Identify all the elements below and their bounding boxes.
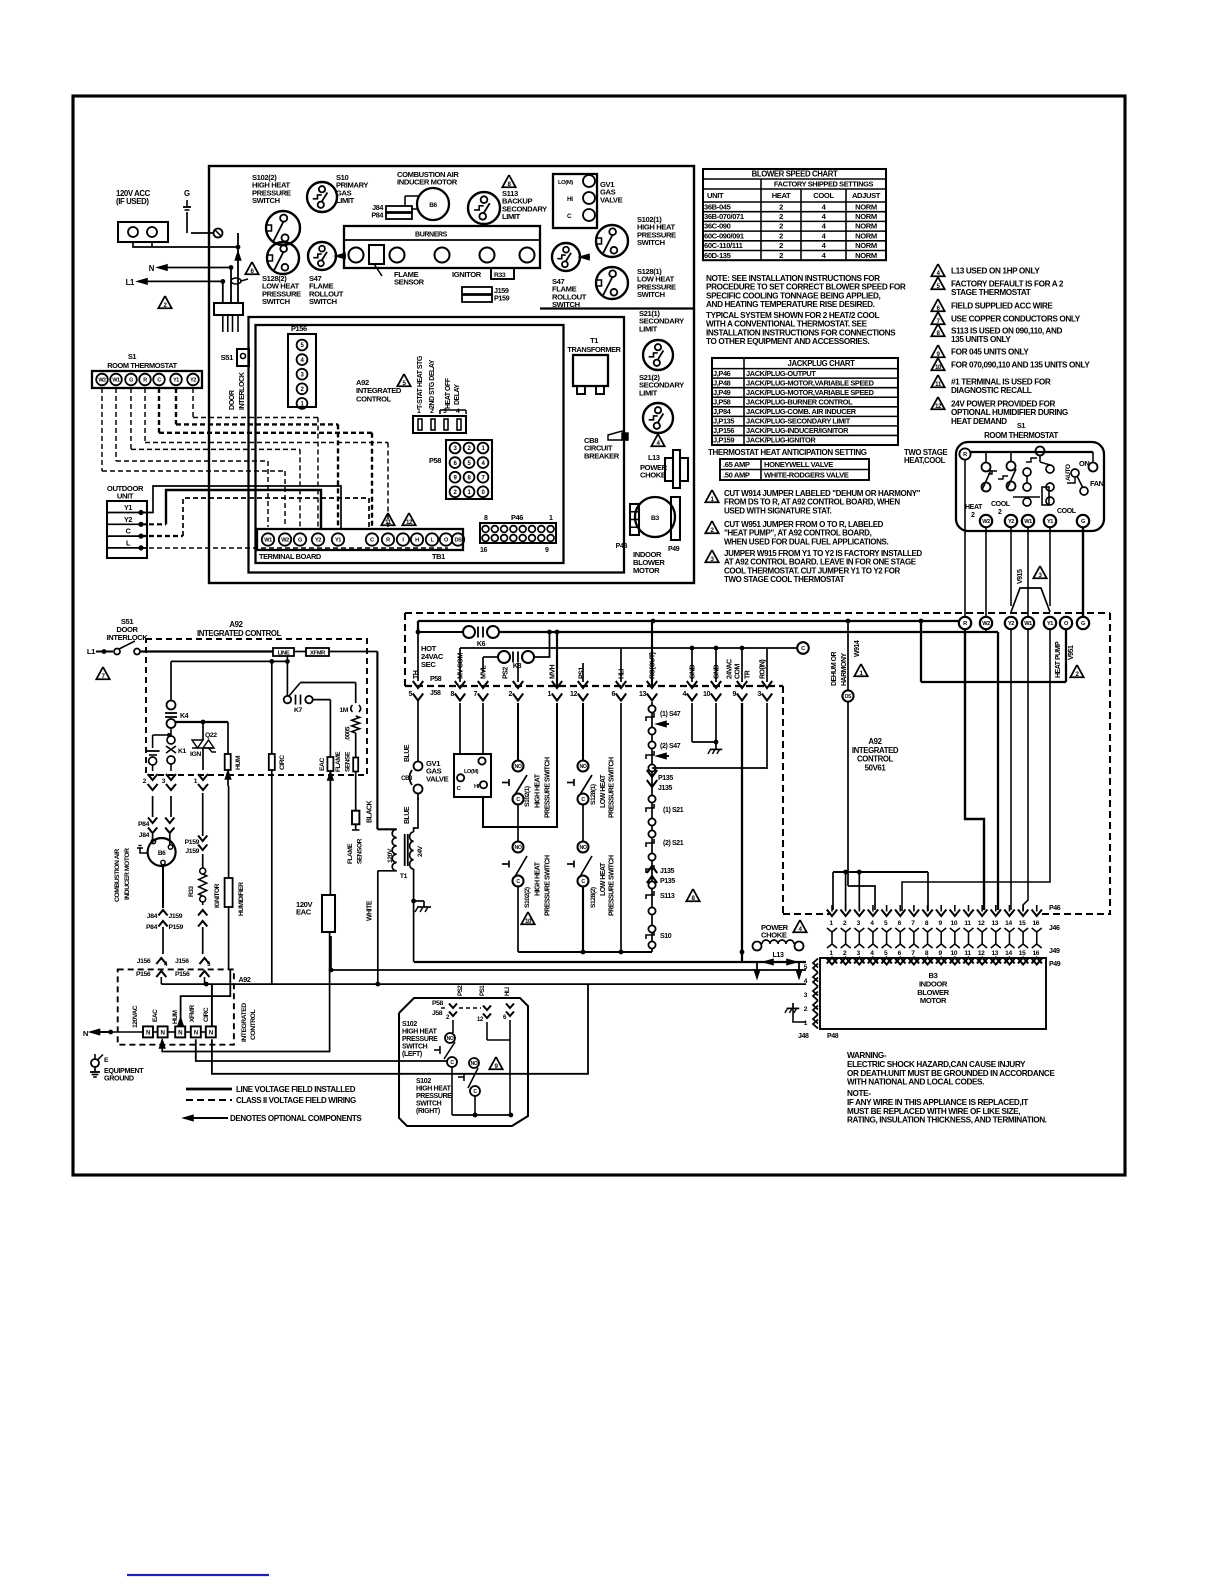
S102(1) switch stack <box>513 761 524 772</box>
svg-text:1: 1 <box>417 408 421 415</box>
svg-text:TH: TH <box>413 670 420 679</box>
svg-text:J159: J159 <box>185 848 199 855</box>
svg-text:NORM: NORM <box>855 241 877 250</box>
svg-text:P48: P48 <box>616 543 628 550</box>
svg-text:LOW HEAT: LOW HEAT <box>600 774 607 808</box>
svg-text:1M: 1M <box>339 707 348 714</box>
svg-text:DS: DS <box>845 694 852 700</box>
svg-text:60C-090/091: 60C-090/091 <box>704 231 745 240</box>
note triangle 2 W951 <box>705 521 718 533</box>
svg-text:P46: P46 <box>1049 905 1061 912</box>
triangle 7 lower <box>96 667 109 679</box>
B6 inducer motor <box>417 188 449 220</box>
svg-text:6: 6 <box>611 691 615 698</box>
svg-text:DIAGNOSTIC RECALL: DIAGNOSTIC RECALL <box>951 386 1032 395</box>
svg-text:Y1: Y1 <box>1047 519 1053 525</box>
svg-text:.50 AMP: .50 AMP <box>723 471 750 480</box>
svg-text:J156: J156 <box>175 958 189 965</box>
svg-text:COOL THERMOSTAT. CUT JUMPER Y1: COOL THERMOSTAT. CUT JUMPER Y1 TO Y2 FOR <box>724 566 901 575</box>
EAC wire to N box <box>160 1040 165 1048</box>
svg-text:COOL: COOL <box>991 501 1011 508</box>
svg-text:J46: J46 <box>1049 925 1060 932</box>
svg-text:FACTORY SHIPPED SETTINGS: FACTORY SHIPPED SETTINGS <box>774 180 874 189</box>
svg-text:NO: NO <box>471 1061 478 1067</box>
svg-text:A92: A92 <box>239 975 251 984</box>
control compartment box B <box>249 317 625 573</box>
svg-text:SWITCH: SWITCH <box>402 1044 428 1051</box>
svg-text:Y2: Y2 <box>124 515 132 524</box>
svg-text:TERMINAL BOARD: TERMINAL BOARD <box>259 552 322 561</box>
triangle 12 note <box>402 513 415 525</box>
svg-text:L13 USED ON 1HP ONLY: L13 USED ON 1HP ONLY <box>951 267 1040 276</box>
svg-text:CB8: CB8 <box>401 776 413 782</box>
svg-text:Q22: Q22 <box>205 732 217 739</box>
svg-text:J159: J159 <box>169 913 183 920</box>
svg-text:BREAKER: BREAKER <box>584 451 620 460</box>
svg-text:PRESSURE SWITCH: PRESSURE SWITCH <box>545 855 552 916</box>
S10 limit switch <box>307 182 337 212</box>
svg-text:PRESSURE SWITCH: PRESSURE SWITCH <box>609 757 616 818</box>
svg-text:60D-135: 60D-135 <box>704 251 732 260</box>
wire nut splice <box>214 229 223 238</box>
G wire stub <box>1082 527 1084 616</box>
S128(2) low heat pressure switch <box>267 242 299 274</box>
svg-text:Y2: Y2 <box>315 538 321 544</box>
svg-text:MVH: MVH <box>550 665 557 680</box>
svg-text:L13: L13 <box>773 952 784 959</box>
svg-text:CUT W951 JUMPER FROM O TO R, L: CUT W951 JUMPER FROM O TO R, LABELED <box>724 520 884 529</box>
svg-text:P156: P156 <box>291 324 307 333</box>
svg-text:9: 9 <box>545 547 549 554</box>
humidifier lower <box>225 878 233 907</box>
svg-text:HI: HI <box>474 784 480 790</box>
svg-text:2: 2 <box>430 408 434 415</box>
svg-text:36B-070/071: 36B-070/071 <box>704 212 745 221</box>
svg-text:BLUE: BLUE <box>404 744 411 762</box>
svg-text:L1: L1 <box>126 278 135 287</box>
svg-text:HONEYWELL VALVE: HONEYWELL VALVE <box>764 460 833 469</box>
svg-text:INSTALLATION INSTRUCTIONS FOR: INSTALLATION INSTRUCTIONS FOR CONNECTION… <box>706 328 896 337</box>
S47 flame rollout switch left <box>308 242 336 270</box>
black wire drop to T1 primary <box>376 652 378 830</box>
svg-text:R: R <box>963 621 967 627</box>
svg-text:P84: P84 <box>146 924 158 931</box>
O to R jumper wiring <box>920 621 922 682</box>
svg-text:J84: J84 <box>139 832 150 839</box>
svg-text:P58: P58 <box>432 1000 444 1007</box>
svg-text:JACK/PLUG-IGNITOR: JACK/PLUG-IGNITOR <box>746 436 816 445</box>
svg-text:3: 3 <box>757 691 761 698</box>
C terminal <box>797 642 809 654</box>
svg-text:P84: P84 <box>371 211 383 220</box>
svg-text:USE COPPER CONDUCTORS ONLY: USE COPPER CONDUCTORS ONLY <box>951 315 1081 324</box>
B3 ground <box>793 1012 806 1022</box>
svg-text:V951: V951 <box>1068 645 1075 660</box>
svg-text:12: 12 <box>935 403 942 410</box>
svg-text:EAC: EAC <box>319 758 326 771</box>
svg-text:14: 14 <box>1005 950 1012 957</box>
svg-text:WHITE-RODGERS VALVE: WHITE-RODGERS VALVE <box>764 471 849 480</box>
svg-text:NORM: NORM <box>855 231 877 240</box>
svg-text:T1: T1 <box>590 336 598 345</box>
A92 board terminal row <box>959 617 971 629</box>
svg-text:B6: B6 <box>158 850 166 857</box>
svg-text:TYPICAL SYSTEM SHOWN FOR 2 HEA: TYPICAL SYSTEM SHOWN FOR 2 HEAT/2 COOL <box>706 311 880 320</box>
svg-text:J,P46: J,P46 <box>713 369 731 378</box>
connector oval on feed <box>231 278 241 284</box>
svg-text:#1 TERMINAL IS USED FOR: #1 TERMINAL IS USED FOR <box>951 378 1051 387</box>
svg-text:HUM: HUM <box>172 1009 179 1024</box>
svg-text:(RIGHT): (RIGHT) <box>416 1108 440 1115</box>
svg-text:J49: J49 <box>1049 948 1060 955</box>
K4 relay <box>170 661 172 700</box>
outdoor unit box <box>107 501 147 558</box>
svg-text:16: 16 <box>1032 920 1039 927</box>
svg-text:14: 14 <box>1005 920 1012 927</box>
svg-text:10: 10 <box>951 950 958 957</box>
Y2 wire to pin14 <box>1010 629 1012 910</box>
svg-text:HEAT OFF: HEAT OFF <box>445 377 452 409</box>
legend <box>186 1088 232 1091</box>
svg-text:S102: S102 <box>402 1021 417 1028</box>
svg-text:TWO STAGE COOL THERMOSTAT: TWO STAGE COOL THERMOSTAT <box>724 575 845 584</box>
svg-text:12: 12 <box>978 920 985 927</box>
GV1 gas valve box <box>553 174 597 228</box>
svg-text:DEHUM OR: DEHUM OR <box>831 651 838 686</box>
svg-text:P135: P135 <box>658 775 673 782</box>
svg-text:HEAT,COOL: HEAT,COOL <box>904 456 946 465</box>
transformer T1 lower <box>392 829 397 870</box>
svg-text:11: 11 <box>935 381 942 388</box>
svg-text:P58: P58 <box>429 456 441 465</box>
svg-text:JACKPLUG CHART: JACKPLUG CHART <box>787 359 855 368</box>
svg-text:S102(2): S102(2) <box>524 887 531 908</box>
Y1 wire to pin6 <box>902 629 1050 911</box>
svg-text:K7: K7 <box>294 707 303 714</box>
svg-text:NORM: NORM <box>855 212 877 221</box>
svg-text:IGNITOR: IGNITOR <box>452 270 482 279</box>
svg-text:J84: J84 <box>147 913 158 920</box>
svg-text:R33: R33 <box>494 272 506 279</box>
svg-text:LIMIT: LIMIT <box>336 196 355 205</box>
svg-text:WITH A CONVENTIONAL THERMOSTAT: WITH A CONVENTIONAL THERMOSTAT. SEE <box>706 320 868 329</box>
outdoor Y1 wire <box>141 486 341 529</box>
svg-text:CHOKE: CHOKE <box>761 931 787 940</box>
CIRC branch <box>271 661 273 754</box>
svg-text:J58: J58 <box>432 1010 443 1017</box>
svg-text:2: 2 <box>971 512 975 519</box>
svg-text:DOOR: DOOR <box>227 389 236 410</box>
svg-text:OPTIONAL HUMIDIFIER DURING: OPTIONAL HUMIDIFIER DURING <box>951 408 1068 417</box>
svg-text:K4: K4 <box>180 713 189 720</box>
stat drop wires <box>964 460 966 617</box>
svg-text:J,P49: J,P49 <box>713 388 731 397</box>
svg-text:FOR 045 UNITS ONLY: FOR 045 UNITS ONLY <box>951 348 1029 357</box>
svg-text:PRESSURE: PRESSURE <box>402 1036 438 1043</box>
svg-text:PS2: PS2 <box>457 985 464 996</box>
svg-text:4: 4 <box>456 408 460 415</box>
svg-text:N: N <box>149 264 155 273</box>
svg-text:(LEFT): (LEFT) <box>402 1051 422 1058</box>
svg-text:S1: S1 <box>128 352 137 361</box>
svg-text:SENSE: SENSE <box>345 751 352 772</box>
svg-text:XFMR: XFMR <box>310 651 326 657</box>
svg-text:GND: GND <box>714 665 721 680</box>
ground symbol at G <box>186 200 188 207</box>
svg-text:ELECTRIC SHOCK HAZARD,CAN CAUS: ELECTRIC SHOCK HAZARD,CAN CAUSE INJURY <box>847 1060 1026 1069</box>
svg-text:RATING, INSULATION THICKNESS,: RATING, INSULATION THICKNESS, AND TERMIN… <box>847 1116 1047 1125</box>
C terminal line <box>460 647 797 649</box>
fan-auto contacts middle <box>1036 447 1045 456</box>
svg-text:J48: J48 <box>798 1033 809 1040</box>
svg-text:N: N <box>83 1029 88 1038</box>
chain to pin3 line <box>652 767 767 769</box>
svg-text:11: 11 <box>964 920 971 927</box>
svg-text:JACK/PLUG-SECONDARY LIMIT: JACK/PLUG-SECONDARY LIMIT <box>746 417 851 426</box>
svg-text:16: 16 <box>1032 950 1039 957</box>
terminal board TB1 <box>257 529 463 550</box>
svg-text:FLAME: FLAME <box>347 843 354 864</box>
W2 bus wire to pin13 <box>985 629 987 633</box>
svg-text:JACK/PLUG-OUTPUT: JACK/PLUG-OUTPUT <box>746 369 816 378</box>
svg-text:1: 1 <box>549 515 553 522</box>
svg-text:HEAT DEMAND: HEAT DEMAND <box>951 417 1007 426</box>
svg-text:SWITCH: SWITCH <box>309 297 337 306</box>
wire from G to nut <box>186 213 188 233</box>
svg-text:INDUCER MOTOR: INDUCER MOTOR <box>397 178 458 187</box>
svg-text:BURNERS: BURNERS <box>415 232 448 239</box>
svg-text:HUMIDIFIER: HUMIDIFIER <box>238 882 245 916</box>
lower A92 dashed box <box>118 969 234 1044</box>
svg-text:IF ANY WIRE IN THIS APPLIANCE: IF ANY WIRE IN THIS APPLIANCE IS REPLACE… <box>847 1098 1028 1107</box>
svg-text:LINE: LINE <box>278 651 290 657</box>
svg-text:CIRC: CIRC <box>279 755 286 770</box>
svg-text:JACK/PLUG-COMB. AIR INDUCER: JACK/PLUG-COMB. AIR INDUCER <box>746 407 857 416</box>
flame sensor label <box>374 264 382 276</box>
svg-text:INTERLOCK: INTERLOCK <box>107 633 149 642</box>
gnd pins wiring <box>691 703 693 742</box>
svg-text:ROOM THERMOSTAT: ROOM THERMOSTAT <box>107 361 177 370</box>
svg-text:1: 1 <box>547 691 551 698</box>
blower speed chart table <box>703 169 886 260</box>
svg-text:SWITCH: SWITCH <box>552 300 580 309</box>
N box links <box>111 1031 143 1033</box>
note triangle 3 W915 <box>705 550 718 562</box>
heat2 contact <box>982 463 991 472</box>
note triangle 1 W914 <box>705 490 718 502</box>
svg-text:36C-090: 36C-090 <box>704 222 731 231</box>
svg-text:WHEN USED FOR DUAL FUEL APPLIC: WHEN USED FOR DUAL FUEL APPLICATIONS. <box>724 537 888 546</box>
svg-text:P135: P135 <box>660 878 675 885</box>
DS drop to connector <box>848 886 875 910</box>
svg-text:8: 8 <box>484 515 488 522</box>
svg-text:PS1: PS1 <box>579 667 586 679</box>
svg-text:UNIT: UNIT <box>707 191 724 200</box>
K7 relay contact <box>286 661 288 696</box>
svg-text:W2: W2 <box>982 519 990 525</box>
svg-text:12: 12 <box>406 519 413 526</box>
B6 motor exit wire <box>162 865 164 908</box>
XFMR run right into inset <box>196 1039 448 1061</box>
svg-text:HIGH HEAT: HIGH HEAT <box>416 1086 452 1093</box>
B3 left pins <box>813 959 818 968</box>
svg-text:S128(2): S128(2) <box>590 887 597 908</box>
svg-text:FAN: FAN <box>1090 479 1104 488</box>
svg-text:K6: K6 <box>477 641 486 648</box>
svg-text:W914: W914 <box>854 640 861 657</box>
svg-text:LINE VOLTAGE FIELD INSTALLED: LINE VOLTAGE FIELD INSTALLED <box>236 1085 356 1094</box>
svg-text:SENSOR: SENSOR <box>394 278 425 287</box>
svg-text:C: C <box>126 527 131 536</box>
svg-text:MV COM: MV COM <box>458 653 465 679</box>
svg-text:P156: P156 <box>136 971 151 978</box>
svg-text:NO: NO <box>447 1036 454 1042</box>
svg-text:W2: W2 <box>982 621 990 627</box>
B6 motor lower <box>152 834 154 843</box>
svg-text:WARNING-: WARNING- <box>847 1051 887 1060</box>
svg-text:(IF USED): (IF USED) <box>116 197 149 206</box>
svg-text:CUT W914 JUMPER LABELED "DEHUM: CUT W914 JUMPER LABELED "DEHUM OR HARMON… <box>724 489 921 498</box>
svg-text:STAGE THERMOSTAT: STAGE THERMOSTAT <box>951 288 1031 297</box>
warning triangle 2 <box>158 296 171 308</box>
svg-text:P84: P84 <box>138 821 150 828</box>
svg-text:IGNITOR: IGNITOR <box>214 883 221 908</box>
numbered note triangles right column <box>931 264 944 276</box>
W1 wire to pin15 <box>1023 629 1028 911</box>
svg-text:NORM: NORM <box>855 222 877 231</box>
svg-text:CHOKE: CHOKE <box>640 471 666 480</box>
svg-text:2: 2 <box>779 241 783 250</box>
R33 box <box>491 268 514 279</box>
svg-text:COOL: COOL <box>1057 508 1077 515</box>
svg-text:HUM: HUM <box>235 755 242 770</box>
svg-text:9: 9 <box>732 691 736 698</box>
svg-text:NOTE-: NOTE- <box>847 1089 871 1098</box>
svg-text:C: C <box>157 377 161 383</box>
svg-text:SWITCH: SWITCH <box>637 238 665 247</box>
svg-text:TB1: TB1 <box>432 552 445 561</box>
svg-text:G: G <box>298 538 302 544</box>
svg-text:FACTORY DEFAULT IS FOR A 2: FACTORY DEFAULT IS FOR A 2 <box>951 280 1064 289</box>
svg-text:L13: L13 <box>648 453 660 462</box>
run up to B3 wires <box>330 936 332 970</box>
svg-text:LO(M): LO(M) <box>558 180 573 186</box>
svg-text:W1: W1 <box>112 377 120 383</box>
svg-text:T-STAT HEAT STG: T-STAT HEAT STG <box>417 355 424 409</box>
svg-text:NO: NO <box>580 845 587 851</box>
inset wiring <box>452 1020 454 1033</box>
svg-text:MOTOR: MOTOR <box>633 566 660 575</box>
svg-text:24V POWER PROVIDED FOR: 24V POWER PROVIDED FOR <box>951 400 1055 409</box>
svg-text:2ND STG DELAY: 2ND STG DELAY <box>429 359 436 409</box>
svg-text:.0005: .0005 <box>345 726 352 741</box>
S102(2) switch stack <box>513 842 524 853</box>
svg-text:WITH NATIONAL AND LOCAL CODES.: WITH NATIONAL AND LOCAL CODES. <box>847 1078 984 1087</box>
svg-text:5: 5 <box>408 691 412 698</box>
svg-text:JUMPER W915 FROM Y1 TO Y2 IS F: JUMPER W915 FROM Y1 TO Y2 IS FACTORY INS… <box>724 549 922 558</box>
S102(2) pressure switch <box>266 211 300 245</box>
svg-text:13: 13 <box>639 691 647 698</box>
svg-text:.65 AMP: .65 AMP <box>723 460 750 469</box>
svg-text:10: 10 <box>951 920 958 927</box>
svg-text:JACK/PLUG-INDUCER/IGNITOR: JACK/PLUG-INDUCER/IGNITOR <box>746 426 849 435</box>
svg-text:P46: P46 <box>511 513 523 522</box>
svg-text:TR: TR <box>745 670 752 679</box>
svg-text:GND: GND <box>690 665 697 680</box>
svg-text:NO: NO <box>580 764 587 770</box>
svg-text:HEAT: HEAT <box>965 504 983 511</box>
S128(1) low heat pressure switch right <box>596 267 628 299</box>
svg-text:BLOWER SPEED CHART: BLOWER SPEED CHART <box>752 169 838 178</box>
svg-text:HARMONY: HARMONY <box>841 653 848 686</box>
R wire to pin12 <box>965 629 984 910</box>
svg-text:J,P58: J,P58 <box>713 397 731 406</box>
cool2 contact <box>1007 462 1016 471</box>
svg-text:LO(M): LO(M) <box>464 769 479 775</box>
EAC branch <box>313 699 331 701</box>
second bus <box>418 631 463 633</box>
svg-text:COM: COM <box>735 664 742 680</box>
svg-text:ROOM THERMOSTAT: ROOM THERMOSTAT <box>984 431 1058 440</box>
svg-text:FLAME: FLAME <box>335 751 342 772</box>
svg-text:LOW HEAT: LOW HEAT <box>600 862 607 896</box>
svg-text:CONTROL: CONTROL <box>250 1010 257 1040</box>
svg-text:"HEAT PUMP", AT A92 CONTROL BO: "HEAT PUMP", AT A92 CONTROL BOARD, <box>724 529 872 538</box>
svg-text:PRESSURE SWITCH: PRESSURE SWITCH <box>609 855 616 916</box>
svg-text:4: 4 <box>682 691 686 698</box>
svg-text:OR DEATH.UNIT MUST BE GROUNDED: OR DEATH.UNIT MUST BE GROUNDED IN ACCORD… <box>847 1069 1055 1078</box>
120V ACC receptacle box <box>118 222 168 242</box>
svg-text:15: 15 <box>1019 920 1026 927</box>
svg-text:S113 IS USED ON 090,110, AND: S113 IS USED ON 090,110, AND <box>951 327 1062 336</box>
svg-text:NORM: NORM <box>855 202 877 211</box>
svg-text:HEAT PUMP: HEAT PUMP <box>1055 641 1062 678</box>
svg-text:BLACK: BLACK <box>367 801 374 823</box>
svg-text:LIMIT: LIMIT <box>639 388 658 397</box>
svg-text:W1: W1 <box>1024 621 1032 627</box>
thermostat terminal strip <box>92 371 202 388</box>
svg-text:16: 16 <box>480 547 488 554</box>
triangle 6 note <box>245 262 258 274</box>
svg-text:BLUE: BLUE <box>404 806 411 824</box>
thermostat field wiring dashed <box>192 388 194 418</box>
white wire from T1 <box>378 870 397 872</box>
unit box divider right <box>540 307 694 309</box>
svg-text:NO: NO <box>515 845 522 851</box>
K8 relay contact <box>498 651 510 663</box>
bottom buses <box>518 951 652 953</box>
svg-text:HLI: HLI <box>619 669 626 679</box>
svg-text:PRESSURE: PRESSURE <box>416 1093 452 1100</box>
svg-text:S128(1): S128(1) <box>590 784 597 805</box>
svg-text:HLI: HLI <box>504 987 511 996</box>
svg-text:B6: B6 <box>429 202 437 209</box>
svg-text:P159: P159 <box>494 294 510 303</box>
svg-text:ADJUST: ADJUST <box>852 191 881 200</box>
svg-text:EAC: EAC <box>296 908 312 917</box>
svg-text:R: R <box>386 538 390 544</box>
svg-text:MVL: MVL <box>481 665 488 680</box>
svg-text:2: 2 <box>779 222 783 231</box>
feed verticals <box>237 233 239 303</box>
CB8 breaker lower <box>414 762 423 771</box>
svg-text:TRANSFORMER: TRANSFORMER <box>567 345 621 354</box>
S102 inset outline <box>399 998 528 1126</box>
svg-text:PS1: PS1 <box>479 985 486 996</box>
svg-text:HIGH HEAT: HIGH HEAT <box>535 861 542 896</box>
svg-text:SEC: SEC <box>421 660 436 669</box>
wires from receptacle <box>133 242 238 247</box>
